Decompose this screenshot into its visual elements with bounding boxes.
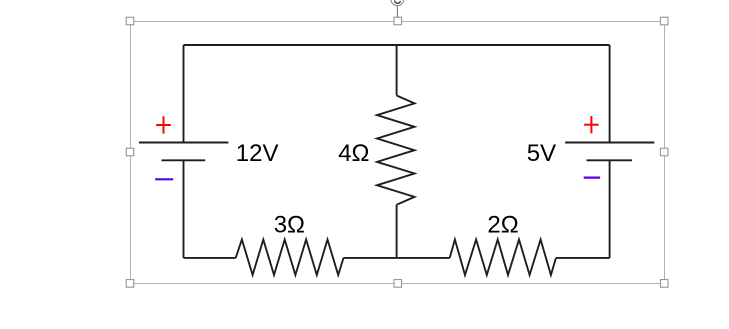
selection handle middle-left [126,148,134,156]
wire right branch upper [609,45,611,143]
selection handle top-right [660,17,668,25]
rotation icon arc [395,0,401,3]
wire bottom middle segment [344,257,450,259]
selection bounding box [130,21,665,284]
wire right branch lower [609,160,611,258]
rotation handle stem [396,6,398,18]
battery V2 positive plate (long line) [565,142,654,144]
minus sign of battery V2 [584,177,600,179]
selection handle top-center [394,17,402,25]
svg-text:4Ω: 4Ω [338,140,369,167]
minus sign of battery V1 [155,178,173,180]
svg-text:3Ω: 3Ω [274,212,305,239]
plus sign of battery V1 [156,116,171,133]
svg-text:5V: 5V [527,140,556,167]
svg-text:12V: 12V [236,140,279,167]
selection handle middle-right [660,148,668,156]
wire left branch lower [183,160,185,258]
selection handle bottom-center [394,280,402,288]
resistor 2ohm zigzag [450,240,556,276]
wire top [184,44,610,46]
svg-text:2Ω: 2Ω [487,212,518,239]
wire bottom left segment [184,257,236,259]
rotation handle circle [391,0,404,6]
wire left branch upper [183,45,185,143]
selection handle bottom-left [126,280,134,288]
selection handle top-left [126,17,134,25]
battery V1 negative plate (short line) [162,159,206,161]
resistor 3ohm zigzag [236,240,344,276]
wire middle branch upper [396,45,398,96]
resistor 4ohm zigzag [377,96,415,205]
wire middle branch lower [396,205,398,258]
plus sign of battery V2 [584,116,599,133]
wire bottom right segment [556,257,610,259]
battery V2 negative plate (short line) [587,159,633,161]
selection handle bottom-right [660,280,668,288]
battery V1 positive plate (long line) [139,142,229,144]
